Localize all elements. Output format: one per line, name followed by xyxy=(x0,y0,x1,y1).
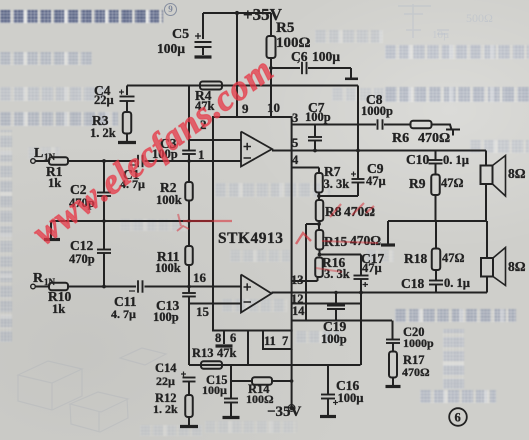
resistor R13 47k xyxy=(201,361,222,369)
svg-text:470Ω: 470Ω xyxy=(418,131,450,146)
wire feedback line right drop to output xyxy=(357,86,359,151)
wire R6 right with hook xyxy=(432,125,452,130)
wire pin 13 line xyxy=(292,280,318,282)
svg-text:R: R xyxy=(33,271,44,286)
wire return line ground drop xyxy=(387,221,389,244)
svg-text:3: 3 xyxy=(292,111,298,125)
resistor R5 top lead xyxy=(270,13,272,36)
svg-text:47µ: 47µ xyxy=(362,261,382,275)
node feedback output junction xyxy=(356,149,360,153)
resistor R15 470ohm xyxy=(316,230,324,250)
resistor R15 top lead xyxy=(318,224,320,230)
wire pin 3 line xyxy=(292,124,376,126)
capacitor C12 top lead xyxy=(103,221,105,249)
svg-text:1. 2k: 1. 2k xyxy=(153,402,178,416)
wire R14 right lead xyxy=(272,380,292,382)
svg-text:11: 11 xyxy=(264,334,276,348)
capacitor C9 top lead from output xyxy=(357,151,359,179)
svg-text:4: 4 xyxy=(292,153,299,167)
capacitor C10 top lead xyxy=(435,151,437,160)
node R8 R15 tap junction xyxy=(317,222,321,226)
ground left bus xyxy=(44,238,60,241)
svg-text:L: L xyxy=(34,146,43,161)
svg-text:47µ: 47µ xyxy=(366,174,386,188)
resistor R12 1.2k xyxy=(185,395,193,417)
capacitor C7 100p xyxy=(308,136,322,138)
wire C1 to pin 1 op-amp input xyxy=(145,160,242,162)
wire R8 bottom lead xyxy=(319,221,321,224)
svg-text:C12: C12 xyxy=(70,238,93,253)
capacitor C12 470p xyxy=(97,249,111,251)
IC U1 STK4913 outline xyxy=(213,117,292,331)
node lower input junction xyxy=(187,285,191,289)
capacitor C6 plus marks xyxy=(298,61,300,63)
red strike on R15 value xyxy=(322,241,378,243)
capacitor C5 lead xyxy=(202,13,204,39)
capacitor C17 plus mark xyxy=(363,284,369,286)
wire upper output line xyxy=(272,150,486,152)
svg-text:10: 10 xyxy=(267,100,280,115)
capacitor C4 22u xyxy=(120,96,135,98)
resistor R18 47ohm xyxy=(432,249,441,271)
ground under R17 xyxy=(386,385,401,388)
wire +35V supply rail xyxy=(203,12,271,14)
capacitor C9 plus mark xyxy=(351,173,356,175)
resistor R8 470ohm xyxy=(316,200,324,221)
capacitor C8 1000p xyxy=(377,119,379,129)
svg-text:470Ω: 470Ω xyxy=(350,233,381,248)
wire R15 bottom lead xyxy=(319,250,321,255)
svg-text:22µ: 22µ xyxy=(156,374,175,388)
svg-text:1k: 1k xyxy=(48,176,61,190)
svg-text:100p: 100p xyxy=(153,310,179,324)
red squiggle near R2 xyxy=(178,214,181,226)
wire C11 to pin 16 op-amp input xyxy=(145,286,242,288)
wire C13 to pin 15 xyxy=(188,297,190,304)
svg-text:R5: R5 xyxy=(276,20,294,36)
wire pin 4 line xyxy=(292,167,319,169)
svg-text:13: 13 xyxy=(291,273,304,287)
wire C6 drop to bootstrap line xyxy=(350,68,352,78)
wire R16 bottom lead xyxy=(317,277,319,281)
capacitor C7 bottom lead xyxy=(314,141,316,151)
resistor R11 bottom lead xyxy=(188,265,190,287)
svg-text:100µ: 100µ xyxy=(202,383,227,397)
wire upper speaker drop xyxy=(485,151,487,166)
ground under pins 8 6 xyxy=(216,344,233,347)
wire R7 bottom to C9 node xyxy=(318,193,320,197)
capacitor C9 bottom lead xyxy=(357,183,359,197)
resistor R6 470ohm xyxy=(411,121,432,129)
capacitor C2 top lead xyxy=(103,161,105,192)
terminal R input xyxy=(31,284,36,289)
capacitor C19 top lead xyxy=(335,293,337,306)
wire pin 14 corner down to C20 xyxy=(392,321,394,340)
svg-text:5: 5 xyxy=(292,136,298,150)
pins 11 7 sub-box xyxy=(263,331,292,350)
node R15 R16 C17 junction xyxy=(318,253,322,257)
ground under C5 xyxy=(195,55,212,58)
node +35V supply node xyxy=(235,11,239,15)
wire pin 2 input to op-amp xyxy=(189,139,241,141)
resistor R16 3.3k xyxy=(315,258,323,278)
svg-text:−35V: −35V xyxy=(267,404,302,420)
capacitor C14 22u xyxy=(183,377,196,379)
wire R15 R16 junction to C17 xyxy=(320,254,362,256)
resistor R17 470ohm xyxy=(389,352,397,378)
svg-text:1k: 1k xyxy=(52,302,65,316)
wire feedback node vertical upper xyxy=(188,86,190,151)
wire C8 to R6 xyxy=(384,124,411,126)
svg-text:C10: C10 xyxy=(406,152,429,167)
capacitor C16 100u xyxy=(321,394,335,396)
wire +35V rail down to pin 9 xyxy=(236,13,238,117)
capacitor C19 100p xyxy=(327,305,345,307)
capacitor C10 0.1u xyxy=(429,159,443,161)
svg-text:C6: C6 xyxy=(291,49,308,64)
wire feedback bootstrap line xyxy=(127,85,358,87)
capacitor C17 47u xyxy=(354,275,369,277)
wire R17 bottom lead xyxy=(392,378,394,386)
wire R18 bottom lead xyxy=(435,270,437,280)
capacitor C13 top lead xyxy=(188,287,190,293)
background bleed-through text texture xyxy=(0,10,163,23)
capacitor C2 470p xyxy=(97,192,111,194)
capacitor C12 bottom lead xyxy=(103,253,105,287)
wire negative supply vertical xyxy=(291,349,293,408)
wire tap to pin 13 area xyxy=(306,223,319,225)
background faint handwriting top right xyxy=(0,0,529,60)
terminal L input xyxy=(31,159,36,164)
svg-text:8Ω: 8Ω xyxy=(508,259,526,274)
capacitor C5 100u xyxy=(195,41,212,43)
svg-text:100p: 100p xyxy=(305,110,331,124)
capacitor C4 top lead xyxy=(126,86,128,96)
svg-text:R18: R18 xyxy=(404,251,427,266)
svg-text:47Ω: 47Ω xyxy=(441,176,464,190)
capacitor C7 top lead xyxy=(314,125,316,137)
capacitor C15 100u xyxy=(224,398,238,400)
svg-text:R13: R13 xyxy=(192,346,214,360)
wire pin 14 line xyxy=(292,320,392,322)
resistor R5 100ohm xyxy=(267,36,276,58)
capacitor C10 bottom lead xyxy=(435,164,437,175)
capacitor C11 4.7u coupling xyxy=(137,280,139,292)
svg-text:STK4913: STK4913 xyxy=(218,230,284,247)
svg-text:C18: C18 xyxy=(401,276,424,291)
wire lower output line xyxy=(272,292,488,294)
svg-text:1. 2k: 1. 2k xyxy=(90,126,116,140)
capacitor C16 plus mark xyxy=(333,402,338,404)
capacitor C15 lower lead xyxy=(230,403,232,417)
op-amp A1 minus input mark xyxy=(244,157,252,159)
svg-text:16: 16 xyxy=(193,270,207,285)
svg-text:100µ: 100µ xyxy=(312,49,340,64)
svg-text:14: 14 xyxy=(292,304,305,318)
ground return line xyxy=(381,243,395,246)
svg-text:R6: R6 xyxy=(392,131,409,146)
wire pin 4 corner down to R7 xyxy=(318,168,320,174)
wire R13 network line xyxy=(189,364,361,366)
wire pin 12 line xyxy=(292,303,361,305)
wire pin stub to R13 line xyxy=(247,331,249,366)
circled figure number 6 xyxy=(449,408,467,426)
node R2 bus junction xyxy=(187,219,191,223)
wire shared speaker return line xyxy=(388,220,487,222)
svg-text:47k: 47k xyxy=(217,346,237,360)
wire lower speaker to output xyxy=(486,277,488,293)
wire ground bus left xyxy=(51,220,213,222)
capacitor C18 0.1u xyxy=(429,280,443,282)
node input-feedback junction xyxy=(187,159,191,163)
svg-text:8Ω: 8Ω xyxy=(508,166,526,181)
node R5-C6 junction xyxy=(269,66,273,70)
red mark on R16 value xyxy=(316,268,342,272)
resistor R7 3.3k xyxy=(315,173,323,193)
svg-text:0. 1µ: 0. 1µ xyxy=(444,276,470,290)
resistor R2 100k xyxy=(185,182,193,201)
capacitor C17 bottom lead xyxy=(360,279,362,293)
red pen arrow near R15 xyxy=(296,233,311,244)
resistor R12 bottom lead xyxy=(188,417,190,425)
wire R input to R10 xyxy=(36,286,50,288)
capacitor C18 bottom lead xyxy=(435,285,437,293)
wire bus ground drop xyxy=(50,221,52,238)
node C12 tap lower xyxy=(102,285,106,289)
capacitor C1 plus mark xyxy=(130,164,136,166)
svg-text:1: 1 xyxy=(198,147,205,162)
capacitor C16 bottom lead xyxy=(327,399,329,416)
svg-text:6: 6 xyxy=(455,411,461,425)
resistor R10 1k xyxy=(49,283,68,291)
ground under C16 xyxy=(320,415,336,418)
speaker SP2 lower 8ohm xyxy=(481,258,493,277)
svg-text:R9: R9 xyxy=(409,176,426,191)
terminal -35V xyxy=(289,406,293,410)
wire C6 right lead xyxy=(308,67,351,69)
svg-text:0. 1µ: 0. 1µ xyxy=(443,153,469,167)
svg-text:100µ: 100µ xyxy=(338,391,364,405)
capacitor C14 plus mark xyxy=(181,373,186,375)
wire lower feedback vertical to R13 line xyxy=(188,304,190,366)
svg-text:7: 7 xyxy=(282,334,288,348)
resistor R9 47ohm xyxy=(431,175,440,196)
red strike on R8 value xyxy=(330,203,374,217)
speaker SP1 upper 8ohm xyxy=(481,166,493,185)
wire L input to R1 xyxy=(36,160,50,162)
capacitor C5 plus mark xyxy=(195,35,201,37)
background pencil sketch bottom left xyxy=(0,0,200,440)
capacitor C4 plus mark xyxy=(119,91,124,93)
svg-text:100p: 100p xyxy=(321,332,347,346)
wire R14 left lead xyxy=(231,380,252,382)
wire R1 to C1 xyxy=(68,160,136,162)
resistor R18 top lead xyxy=(435,221,437,249)
svg-text:1000p: 1000p xyxy=(361,104,393,118)
svg-text:C5: C5 xyxy=(172,27,189,42)
svg-text:3. 3k: 3. 3k xyxy=(324,177,350,191)
wire lower speaker top drop xyxy=(486,221,488,258)
resistor R3 1.2k xyxy=(123,112,132,134)
svg-text:6: 6 xyxy=(230,331,236,345)
background circled mark top xyxy=(164,3,177,16)
svg-text:100k: 100k xyxy=(156,193,182,207)
resistor R11 top lead xyxy=(188,221,190,246)
resistor R1 1k xyxy=(49,157,68,165)
op-amp A2 minus input mark xyxy=(244,301,252,303)
capacitor C5 lower lead xyxy=(202,47,204,55)
node R7 R8 C9 junction xyxy=(317,194,321,198)
wire tap vertical down to pin 14 line xyxy=(305,224,307,321)
svg-text:100k: 100k xyxy=(155,261,181,275)
capacitor C11 plus mark xyxy=(129,290,135,292)
resistor R12 top lead xyxy=(188,382,190,396)
node C2 tap xyxy=(102,159,106,163)
svg-text:47Ω: 47Ω xyxy=(442,251,465,265)
capacitor C13 100p xyxy=(182,292,196,294)
capacitor C9 47u xyxy=(352,178,365,180)
node C17 output junction xyxy=(359,291,363,295)
capacitor C6 100u coupling xyxy=(301,62,303,74)
svg-text:22µ: 22µ xyxy=(94,93,114,107)
op-amp A1 upper triangle xyxy=(241,132,272,167)
resistor R5 bottom lead / pin 10 stub xyxy=(270,58,272,117)
capacitor C17 top lead xyxy=(360,255,362,276)
capacitor C4 bottom lead xyxy=(126,101,128,112)
op-amp A2 plus input mark xyxy=(244,286,252,288)
ground under R12 xyxy=(180,425,198,428)
svg-text:1000p: 1000p xyxy=(403,336,434,350)
svg-text:15: 15 xyxy=(196,304,210,319)
capacitor C1 4.7u coupling xyxy=(137,155,139,167)
capacitor C2 bottom lead xyxy=(103,196,105,221)
resistor R11 100k xyxy=(185,246,193,265)
svg-text:4. 7µ: 4. 7µ xyxy=(111,307,136,321)
capacitor C20 bottom lead xyxy=(392,343,394,352)
capacitor C19 bottom lead xyxy=(335,309,337,321)
wire C6 left lead xyxy=(271,67,300,69)
resistor R2 bottom lead xyxy=(188,201,190,222)
svg-text:C14: C14 xyxy=(155,361,177,375)
wire C3 to input junction xyxy=(188,154,190,161)
resistor R2 top lead xyxy=(188,161,190,182)
svg-text:470p: 470p xyxy=(69,252,95,266)
wire C17 column down to R13 line xyxy=(360,293,362,366)
capacitor C16 top lead xyxy=(327,365,329,394)
node C7 output junction xyxy=(313,149,317,153)
red pen dash on bus xyxy=(183,220,232,222)
wire R10 to C11 xyxy=(68,286,136,288)
svg-text:470Ω: 470Ω xyxy=(402,365,430,379)
terminal bar C6 xyxy=(345,78,358,81)
resistor R14 100ohm xyxy=(252,377,272,385)
ground under C15 xyxy=(223,416,240,419)
op-amp A2 lower triangle xyxy=(241,275,272,313)
resistor R8 top lead xyxy=(318,196,320,200)
capacitor C20 1000p xyxy=(386,339,400,341)
node C19 output junction xyxy=(334,291,338,295)
node C2 bus junction xyxy=(102,219,106,223)
svg-text:8: 8 xyxy=(215,331,221,345)
wire C9 bottom link xyxy=(319,195,358,197)
capacitor C3 100p xyxy=(182,150,196,152)
svg-text:100µ: 100µ xyxy=(157,41,185,56)
ground under R3 xyxy=(118,141,136,144)
op-amp A1 plus input mark xyxy=(244,146,252,148)
resistor R4 47k feedback xyxy=(200,82,222,90)
wire pins 8 6 ground stub xyxy=(223,331,225,345)
wire upper speaker return xyxy=(485,184,487,221)
wire R9 bottom lead xyxy=(435,195,437,221)
node R14 to -35V junction xyxy=(290,379,294,383)
resistor R3 bottom lead xyxy=(126,134,128,142)
wire pin 15 to op-amp xyxy=(189,303,241,305)
wire C15 top lead xyxy=(230,365,232,398)
